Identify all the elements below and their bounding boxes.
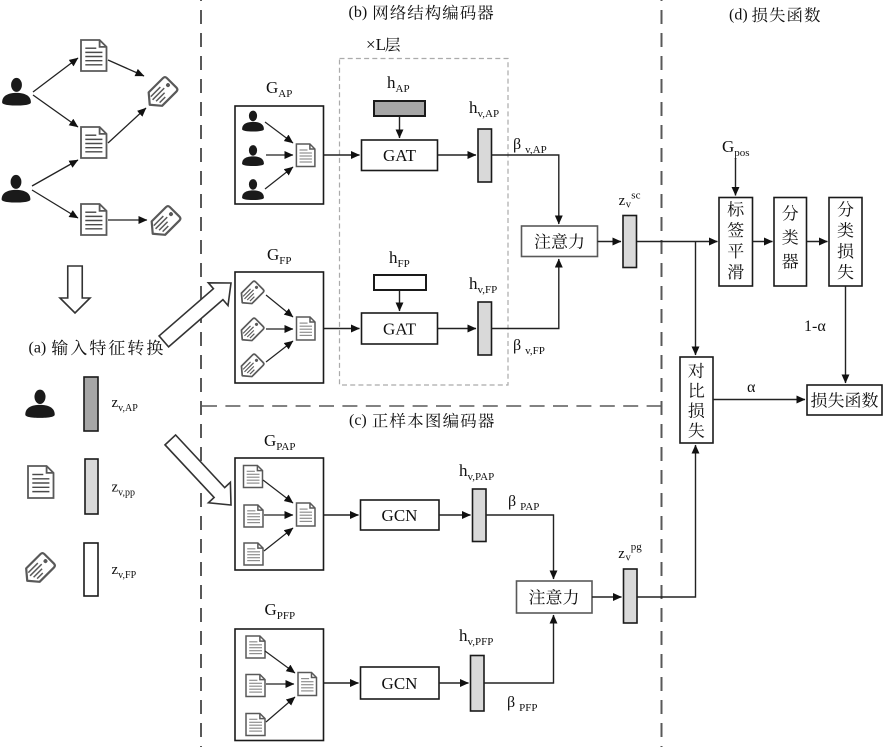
h_v,PFP bar bbox=[471, 656, 485, 712]
svg-text:(b): (b) bbox=[349, 4, 368, 21]
svg-text:GAT: GAT bbox=[383, 146, 417, 165]
label 1-alpha bbox=[804, 318, 826, 335]
svg-text:GCN: GCN bbox=[382, 674, 418, 693]
G_AP person 3 bbox=[242, 179, 264, 200]
wire GCN1 to h_v,PAP bar bbox=[439, 514, 471, 516]
G_PFP paper center bbox=[298, 673, 317, 696]
wire G_PFP to GCN2 bbox=[324, 682, 359, 684]
wire classification loss to loss function bbox=[845, 286, 847, 383]
wire h_v,FP bar to attention1 bbox=[492, 259, 559, 329]
wire h_FP to GAT2 bbox=[399, 291, 401, 311]
G_PAP paper 3 bbox=[244, 543, 263, 565]
z_v^sc bar bbox=[623, 216, 637, 268]
hollow arrow to G_PAP (down-right) bbox=[159, 430, 242, 516]
legend z_v,PP light bar bbox=[85, 459, 98, 514]
G_PAP paper 2 bbox=[244, 505, 263, 527]
box GAT1 bbox=[362, 140, 438, 171]
h_FP white bar bbox=[374, 275, 426, 290]
G_PAP edge 1 bbox=[263, 480, 293, 503]
svg-text:v: v bbox=[626, 552, 632, 563]
wire z_v^sc to label-smoothing bbox=[637, 241, 718, 243]
edge P3-F2 bbox=[108, 219, 147, 221]
legend z_v,FP white bar bbox=[84, 543, 98, 596]
wire G_FP to GAT2 bbox=[324, 328, 360, 330]
field tag node F2 bbox=[146, 205, 181, 240]
G_PAP paper center bbox=[297, 503, 316, 526]
box G_PFP bbox=[235, 629, 324, 741]
G_FP edge 2 bbox=[266, 328, 293, 330]
G_PFP edge 1 bbox=[265, 651, 295, 673]
svg-text:GAT: GAT bbox=[383, 320, 417, 339]
G_FP tag 2 bbox=[237, 317, 265, 345]
svg-text:×L: ×L bbox=[366, 35, 386, 54]
svg-text:sc: sc bbox=[631, 189, 640, 201]
wire h_v,PAP bar to attention2 bbox=[486, 515, 554, 579]
G_FP paper bbox=[297, 317, 316, 340]
wire attention2 to z_v^pg bar bbox=[592, 596, 622, 598]
wire classifier to classification loss bbox=[807, 241, 828, 243]
title (c) 正样本图编码器 bbox=[349, 412, 494, 429]
legend z_v,AP dark bar bbox=[84, 377, 98, 431]
label (a) 输入特征转换 bbox=[29, 339, 163, 356]
h_AP dark bar bbox=[374, 101, 425, 116]
box 分类损失 classification loss bbox=[829, 198, 862, 287]
dashed separator between (b) and (c) bbox=[202, 405, 661, 407]
label alpha bbox=[747, 379, 756, 396]
G_AP edge 3 bbox=[265, 167, 293, 189]
wire z_v^pg to contrastive loss bbox=[637, 445, 696, 597]
edge A1-P2 bbox=[33, 95, 78, 127]
edge A2-P2 bbox=[32, 160, 78, 186]
label z_v^pg bbox=[618, 541, 642, 564]
G_PFP paper 3 bbox=[246, 714, 265, 736]
svg-text:(c): (c) bbox=[349, 412, 367, 429]
h_v,AP bar bbox=[478, 129, 492, 182]
box G_AP bbox=[235, 106, 324, 204]
box G_FP bbox=[235, 272, 324, 383]
wire h_AP to GAT1 bbox=[399, 117, 401, 138]
G_FP tag 1 bbox=[237, 280, 265, 308]
box 标签平滑 label smoothing bbox=[719, 198, 753, 287]
svg-text:(a): (a) bbox=[29, 340, 47, 357]
svg-text:pg: pg bbox=[631, 541, 643, 553]
svg-text:GCN: GCN bbox=[382, 506, 418, 525]
field tag node F1 bbox=[143, 76, 178, 111]
hollow down arrow (a) bbox=[60, 266, 90, 313]
G_FP edge 1 bbox=[266, 295, 293, 317]
G_AP paper bbox=[296, 144, 315, 167]
wire GAT1 to h_v,AP bar bbox=[438, 154, 477, 156]
h_v,FP bar bbox=[478, 302, 492, 355]
G_PFP edge 3 bbox=[266, 697, 295, 722]
paper node P2 bbox=[81, 127, 107, 158]
legend person icon bbox=[25, 390, 54, 418]
G_AP edge 2 bbox=[266, 154, 293, 156]
edge A1-P1 bbox=[33, 58, 78, 92]
wire G_pos to label-smoothing bbox=[735, 158, 737, 196]
box GCN2 bbox=[361, 667, 440, 699]
dashed separator between (b)/(c) and (d) bbox=[661, 0, 663, 747]
label xL层 bbox=[366, 35, 400, 54]
title (d) 损失函数 bbox=[729, 6, 820, 23]
G_PFP paper 1 bbox=[246, 636, 265, 658]
G_FP edge 3 bbox=[266, 341, 293, 362]
hollow arrow to G_FP (up-right) bbox=[154, 272, 241, 353]
G_AP edge 1 bbox=[265, 122, 293, 143]
G_PFP edge 2 bbox=[266, 683, 294, 685]
wire GAT2 to h_v,FP bar bbox=[438, 328, 477, 330]
G_PAP edge 2 bbox=[264, 514, 293, 516]
box 损失函数 loss function bbox=[807, 385, 882, 415]
paper node P3 bbox=[81, 204, 107, 235]
box 对比损失 contrastive loss bbox=[680, 357, 713, 443]
box attention2 注意力 bbox=[517, 581, 593, 613]
svg-text:1-α: 1-α bbox=[804, 318, 826, 335]
box 分类器 classifier bbox=[774, 198, 807, 287]
svg-text:(d): (d) bbox=[729, 6, 748, 23]
wire G_PAP to GCN1 bbox=[324, 514, 359, 516]
G_PAP edge 3 bbox=[264, 528, 293, 551]
author node A2 bbox=[2, 175, 31, 203]
edge A2-P3 bbox=[32, 190, 78, 218]
dashed separator between (a) and (b)/(c) bbox=[200, 0, 202, 747]
wire G_AP to GAT1 bbox=[324, 154, 360, 156]
inner dashed box xL bbox=[340, 59, 509, 386]
title (b) 网络结构编码器 bbox=[349, 4, 494, 21]
box GCN1 bbox=[361, 500, 440, 530]
z_v^pg bar bbox=[624, 569, 638, 623]
G_FP tag 3 bbox=[237, 353, 265, 381]
box GAT2 bbox=[362, 313, 438, 344]
box attention1 注意力 bbox=[522, 226, 598, 257]
wire label-smoothing to classifier bbox=[753, 241, 773, 243]
wire h_v,AP bar to attention1 bbox=[492, 155, 559, 224]
wire h_v,PFP bar to attention2 bbox=[484, 615, 554, 683]
svg-text:z: z bbox=[618, 546, 625, 562]
wire contrastive loss to loss function bbox=[713, 399, 805, 401]
author node A1 bbox=[2, 78, 31, 106]
h_v,PAP bar bbox=[473, 489, 487, 542]
edge P2-F1 bbox=[108, 108, 146, 143]
G_PAP paper 1 bbox=[244, 466, 263, 488]
svg-text:z: z bbox=[619, 193, 626, 209]
legend paper icon bbox=[28, 466, 54, 498]
G_AP person 2 bbox=[242, 145, 264, 166]
paper node P1 bbox=[81, 40, 107, 71]
G_AP person 1 bbox=[242, 111, 264, 132]
legend tag icon bbox=[21, 552, 56, 587]
label z_v^sc bbox=[619, 189, 641, 210]
wire attention1 to z_v^sc bar bbox=[598, 241, 622, 243]
edge P1-F1 bbox=[108, 60, 144, 76]
G_PFP paper 2 bbox=[246, 675, 265, 697]
wire GCN2 to h_v,PFP bar bbox=[439, 682, 469, 684]
wire junction down to contrastive loss bbox=[695, 242, 697, 356]
box G_PAP bbox=[235, 458, 324, 570]
svg-text:α: α bbox=[747, 379, 756, 396]
